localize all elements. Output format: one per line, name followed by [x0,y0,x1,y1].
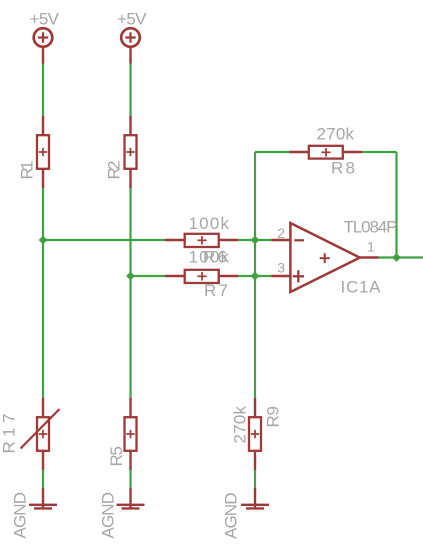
svg-text:+5V: +5V [30,10,60,29]
svg-text:270k: 270k [231,406,250,444]
svg-text:+5V: +5V [117,10,147,29]
svg-text:R9: R9 [264,406,283,428]
svg-text:R5: R5 [107,446,126,467]
svg-text:R8: R8 [331,159,355,178]
svg-text:R17: R17 [0,414,19,454]
svg-text:R7: R7 [204,281,228,300]
svg-text:3: 3 [277,260,285,276]
svg-text:R2: R2 [105,161,124,180]
svg-text:IC1A: IC1A [341,278,382,297]
svg-text:R6: R6 [203,248,227,267]
svg-text:AGND: AGND [99,492,118,539]
svg-text:R1: R1 [18,161,37,180]
svg-text:AGND: AGND [222,493,241,540]
svg-text:AGND: AGND [11,492,30,539]
svg-text:100k: 100k [189,214,230,233]
svg-text:1: 1 [367,239,375,255]
svg-text:270k: 270k [317,125,355,144]
svg-text:TL084P: TL084P [344,218,398,237]
svg-text:2: 2 [277,225,285,241]
